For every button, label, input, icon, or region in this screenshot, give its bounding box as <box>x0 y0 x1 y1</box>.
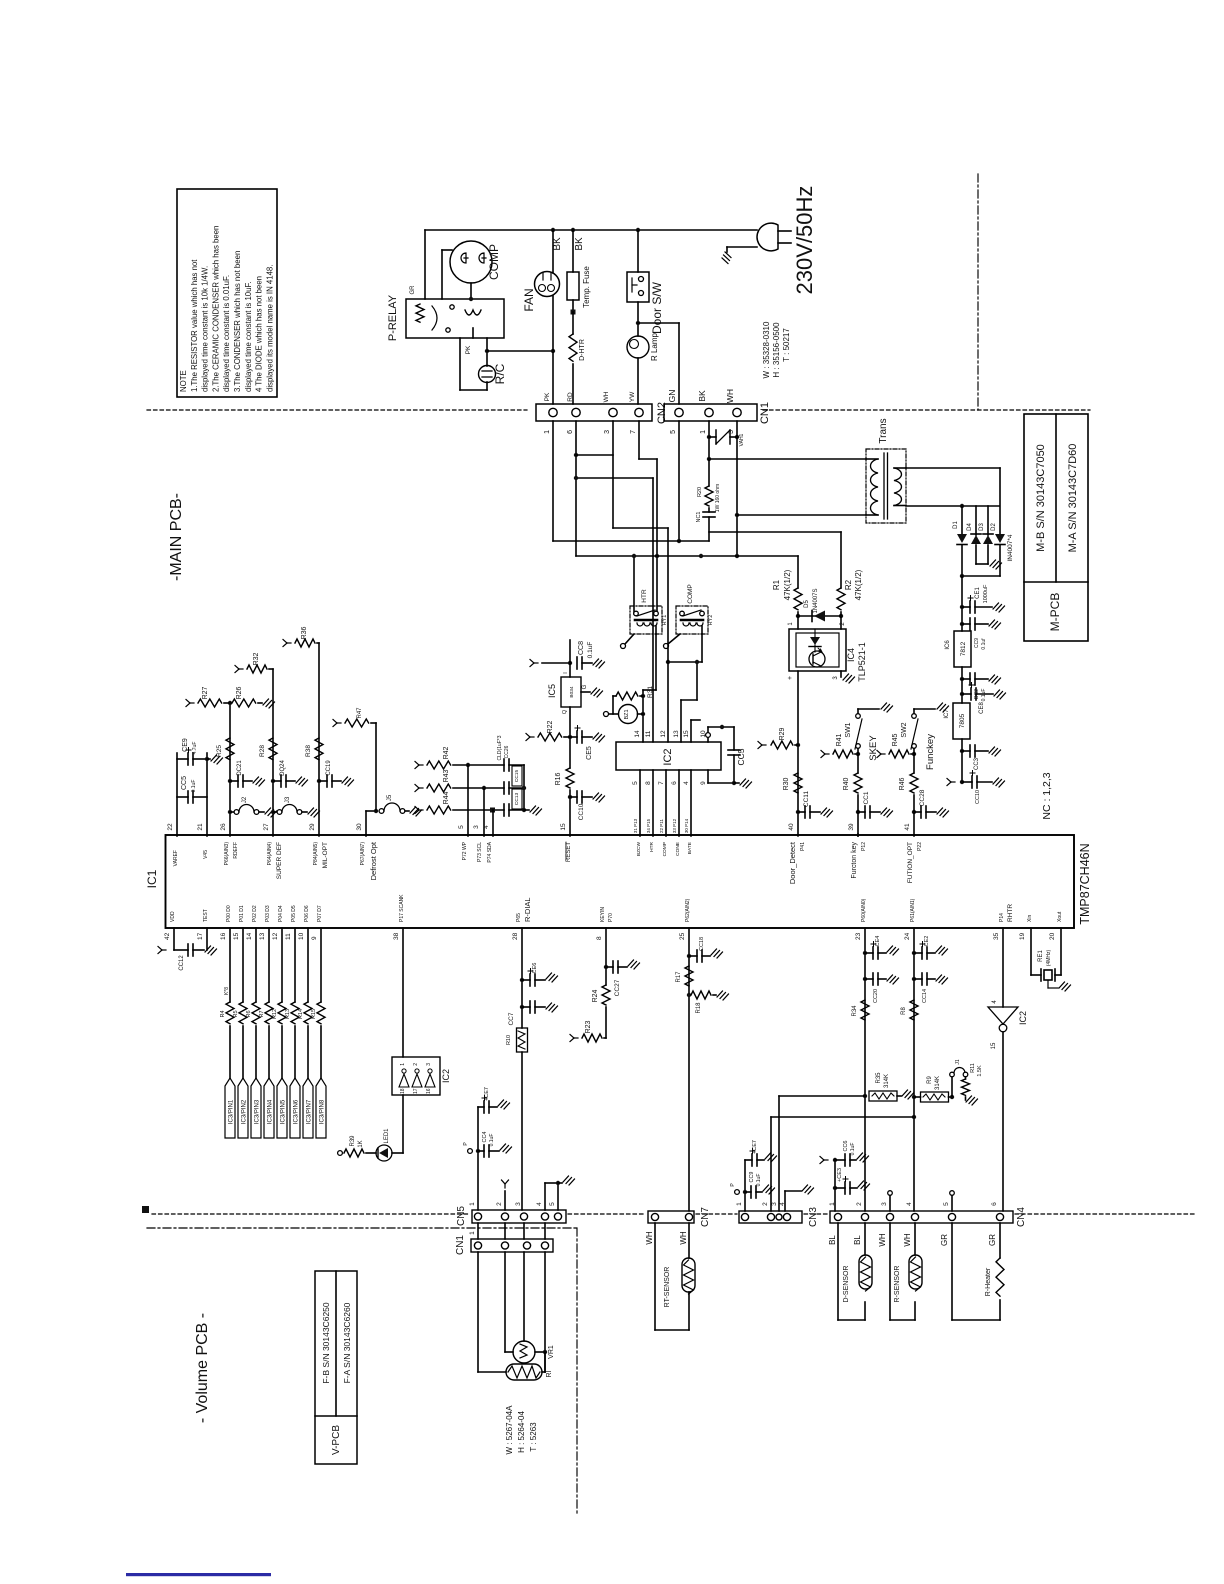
svg-text:1: 1 <box>788 622 794 626</box>
svg-text:P12: P12 <box>861 842 867 851</box>
svg-text:P70: P70 <box>608 913 614 922</box>
svg-text:RE1: RE1 <box>1038 950 1044 962</box>
svg-text:26: 26 <box>220 823 227 831</box>
svg-text:IC4: IC4 <box>846 648 856 662</box>
svg-text:14: 14 <box>246 932 253 940</box>
wire D1-D2 join <box>962 575 1000 577</box>
svg-text:P05 D5: P05 D5 <box>291 905 297 922</box>
svg-text:30 P14: 30 P14 <box>684 818 689 833</box>
svg-text:CE8: CE8 <box>979 702 985 714</box>
svg-text:18: 18 <box>400 1088 406 1094</box>
capacitor CE8 <box>960 692 964 696</box>
resistor RI volume <box>506 1364 542 1380</box>
resistor R29 <box>758 742 766 749</box>
svg-text:Door S/W: Door S/W <box>650 281 664 334</box>
diode D4 <box>975 506 977 535</box>
svg-text:IC3/PIN1: IC3/PIN1 <box>229 1099 235 1124</box>
svg-text:R15: R15 <box>311 1009 317 1019</box>
svg-text:5: 5 <box>670 430 677 434</box>
svg-text:GR: GR <box>940 1234 949 1246</box>
svg-text:CC11: CC11 <box>803 791 810 808</box>
reset IC5 B034 column <box>530 660 538 667</box>
temp fuse <box>572 230 574 272</box>
connector CN4 <box>830 1211 1013 1223</box>
svg-text:GN: GN <box>667 390 677 403</box>
svg-text:CE1: CE1 <box>975 587 981 599</box>
svg-text:TMP87CH46N: TMP87CH46N <box>1078 843 1092 924</box>
CN5 pin2 Y terminal <box>504 1191 506 1210</box>
svg-text:RY1: RY1 <box>662 615 668 626</box>
svg-text:R47: R47 <box>357 707 363 719</box>
svg-text:HTR: HTR <box>641 589 648 603</box>
svg-text:BK: BK <box>552 237 563 251</box>
svg-text:3: 3 <box>833 676 839 680</box>
svg-text:VR1: VR1 <box>548 1345 555 1359</box>
svg-text:0.1uF: 0.1uF <box>850 1143 856 1156</box>
svg-text:7805: 7805 <box>959 713 966 728</box>
svg-text:WH: WH <box>725 389 735 403</box>
capacitor CC9a 0.1uF <box>960 622 964 626</box>
svg-text:IC3/PIN3: IC3/PIN3 <box>255 1099 261 1124</box>
svg-text:R24: R24 <box>592 989 599 1002</box>
IC2 bottom pins to IC1 <box>639 770 641 836</box>
svg-text:IC1: IC1 <box>145 869 159 888</box>
pin38 column to inverter <box>402 928 404 1057</box>
svg-text:M-A S/N 30143C7D60: M-A S/N 30143C7D60 <box>1067 444 1079 553</box>
svg-text:P00 D0: P00 D0 <box>226 905 232 922</box>
svg-text:R1: R1 <box>772 579 781 590</box>
svg-text:R5: R5 <box>233 1010 239 1017</box>
resistor R35 314K <box>779 1095 865 1097</box>
svg-text:CC15: CC15 <box>514 770 520 783</box>
svg-text:39: 39 <box>848 823 855 831</box>
resistor R22 CE5 <box>526 734 534 741</box>
svg-text:230V/50Hz: 230V/50Hz <box>792 186 817 295</box>
svg-text:displayed time constant is 10k: displayed time constant is 10k 1/4W. <box>201 266 210 392</box>
svg-text:R42: R42 <box>443 746 450 759</box>
wire NC1 to R2 <box>709 531 841 533</box>
svg-text:(4MHz): (4MHz) <box>1046 949 1052 966</box>
svg-text:W : 35328-0310: W : 35328-0310 <box>762 321 771 378</box>
svg-text:IC3/PIN7: IC3/PIN7 <box>307 1099 313 1124</box>
svg-text:R43: R43 <box>443 769 450 782</box>
svg-text:P04 D4: P04 D4 <box>278 905 284 922</box>
svg-text:P65: P65 <box>516 913 522 922</box>
svg-text:1N4007S: 1N4007S <box>813 588 819 613</box>
svg-text:RHTR: RHTR <box>1007 904 1014 922</box>
svg-text:IN4007*4: IN4007*4 <box>1007 534 1014 561</box>
svg-text:R40: R40 <box>843 777 850 790</box>
svg-text:Trans: Trans <box>878 418 889 443</box>
svg-text:16: 16 <box>426 1088 432 1094</box>
svg-text:CC18: CC18 <box>699 937 705 951</box>
wire to CN1 pin5 <box>638 322 679 324</box>
capacitor R/C <box>459 338 461 390</box>
wire RY2 coil to IC2 pin12 <box>701 626 703 634</box>
svg-text:RDEFF: RDEFF <box>233 842 239 859</box>
svg-text:Temp. Fuse: Temp. Fuse <box>582 266 591 308</box>
fan motor FAN <box>552 230 554 273</box>
svg-text:11: 11 <box>285 933 292 940</box>
svg-text:4: 4 <box>536 1202 543 1206</box>
R lamp <box>637 302 639 336</box>
svg-text:CC19: CC19 <box>326 760 332 776</box>
buzzer BZ1 and R31 <box>604 712 609 717</box>
svg-text:3: 3 <box>604 430 611 434</box>
connector CN7 <box>648 1211 694 1223</box>
svg-text:P84(AIN5): P84(AIN5) <box>313 842 319 866</box>
svg-text:COMP: COMP <box>687 584 694 604</box>
svg-text:B034: B034 <box>569 686 575 698</box>
optocoupler IC4 TLP521-1 <box>789 629 846 671</box>
svg-text:Door_Detect: Door_Detect <box>788 841 797 884</box>
svg-text:1000uF: 1000uF <box>983 584 989 603</box>
svg-text:IC3/PIN5: IC3/PIN5 <box>281 1099 287 1124</box>
CN5 pins 4-5 ground <box>544 1183 546 1210</box>
svg-text:CE6: CE6 <box>532 963 538 974</box>
svg-text:R39: R39 <box>350 1135 356 1147</box>
IC2 pin9 to ground <box>707 770 709 783</box>
svg-text:13: 13 <box>259 932 266 940</box>
note box <box>177 189 277 397</box>
wire RY1 coil to IC2 pin14 <box>655 626 657 634</box>
svg-text:RD: RD <box>567 392 574 402</box>
svg-text:FUTION_OPT: FUTION_OPT <box>907 842 914 883</box>
RY1 coil terminal <box>621 644 626 649</box>
svg-text:1K: 1K <box>358 1140 364 1147</box>
svg-text:7: 7 <box>658 781 665 785</box>
svg-text:Xin: Xin <box>1027 915 1033 922</box>
svg-text:1.5K: 1.5K <box>977 1065 983 1077</box>
wire D4-D3 ground <box>976 563 988 565</box>
svg-text:2: 2 <box>413 1063 419 1066</box>
svg-text:PK: PK <box>544 392 551 401</box>
connector CN1 <box>664 404 757 421</box>
potentiometer VR1 <box>477 1252 479 1372</box>
svg-text:CE2: CE2 <box>924 936 930 947</box>
resistor R9 314K <box>921 1092 949 1102</box>
svg-text:GR: GR <box>410 285 416 295</box>
pin26 network R25 R27 R26 DC21 J2 <box>229 703 231 836</box>
diode D2 <box>995 534 1005 543</box>
svg-text:6: 6 <box>671 781 678 785</box>
svg-text:R31: R31 <box>647 686 654 698</box>
svg-text:P74 SDA: P74 SDA <box>487 841 493 862</box>
P-RELAY K1 <box>406 299 504 338</box>
svg-text:11: 11 <box>645 730 652 737</box>
capacitor CE1 1000uF <box>960 605 964 609</box>
svg-text:0.1uF: 0.1uF <box>489 1134 495 1147</box>
svg-text:30: 30 <box>356 823 363 831</box>
svg-text:17: 17 <box>413 1088 419 1094</box>
defrost heater D-HTR <box>572 312 574 334</box>
svg-text:15: 15 <box>560 823 567 831</box>
wire hot bus y556 <box>576 555 798 557</box>
svg-text:CC14: CC14 <box>922 989 928 1003</box>
capacitor CC11 <box>798 811 805 813</box>
regulator IC7 7805 <box>953 703 970 739</box>
svg-text:P66(AIN3): P66(AIN3) <box>224 842 230 866</box>
svg-text:CC4: CC4 <box>482 1131 488 1142</box>
relay RY1 HTR <box>630 606 662 634</box>
svg-text:CN1: CN1 <box>455 1235 466 1255</box>
svg-text:PK: PK <box>465 345 472 354</box>
svg-text:CONE: CONE <box>675 842 681 856</box>
svg-text:P73 SCL: P73 SCL <box>477 842 483 862</box>
svg-text:2: 2 <box>496 1202 503 1206</box>
svg-text:R38: R38 <box>305 745 312 757</box>
svg-text:47K(1/2): 47K(1/2) <box>854 569 863 600</box>
svg-text:23: 23 <box>855 932 862 940</box>
svg-text:19: 19 <box>1019 932 1026 940</box>
svg-text:5: 5 <box>943 1202 950 1206</box>
svg-text:4 The DIODE which has not been: 4 The DIODE which has not been <box>255 276 264 392</box>
svg-text:33 P12: 33 P12 <box>672 818 677 833</box>
svg-text:CN7: CN7 <box>700 1207 711 1227</box>
svg-text:1: 1 <box>400 1063 406 1066</box>
svg-text:Xout: Xout <box>1057 911 1063 922</box>
svg-text:42: 42 <box>164 932 171 940</box>
key SW1 SKEY with R41 R40 <box>821 751 829 758</box>
svg-text:RY2: RY2 <box>708 615 714 626</box>
svg-text:W : 5267-04A: W : 5267-04A <box>505 1405 514 1455</box>
svg-text:R27: R27 <box>202 686 209 699</box>
pin23 column AIN0 <box>864 928 866 1211</box>
svg-text:15: 15 <box>991 1042 997 1049</box>
svg-text:27: 27 <box>263 823 270 831</box>
pin25 column RT sensor line <box>688 928 690 1211</box>
svg-text:1: 1 <box>469 1202 476 1206</box>
resistor R10 boxed <box>517 1028 528 1052</box>
wire CN2 pin3 column <box>612 421 614 528</box>
svg-text:29: 29 <box>309 823 316 831</box>
svg-text:R4: R4 <box>220 1010 226 1017</box>
svg-text:25: 25 <box>679 932 686 940</box>
svg-text:28: 28 <box>512 932 519 940</box>
svg-text:R Lamp: R Lamp <box>650 332 659 361</box>
svg-text:+CE7: +CE7 <box>752 1140 758 1154</box>
svg-text:R22: R22 <box>547 720 554 733</box>
svg-text:6: 6 <box>567 430 574 434</box>
svg-text:R20: R20 <box>697 487 703 497</box>
heater R-Heater <box>951 1223 953 1320</box>
resistor R1 47K <box>797 556 799 588</box>
CN4 supply cluster CC6 CE3 <box>834 1160 836 1211</box>
svg-text:R23: R23 <box>585 1020 592 1033</box>
svg-text:P67(AIN7): P67(AIN7) <box>360 842 366 866</box>
svg-text:F-A S/N 30143C6260: F-A S/N 30143C6260 <box>342 1302 352 1383</box>
svg-text:22: 22 <box>167 823 174 831</box>
svg-text:CE9: CE9 <box>182 738 189 752</box>
svg-text:9: 9 <box>311 936 318 940</box>
svg-text:P41: P41 <box>800 842 806 851</box>
svg-text:R30: R30 <box>783 777 790 790</box>
svg-text:R-Heater: R-Heater <box>985 1267 992 1296</box>
svg-text:40: 40 <box>788 823 795 831</box>
svg-text:DQ24: DQ24 <box>280 760 286 776</box>
pin24 column AIN1 <box>913 928 915 1211</box>
svg-text:P14: P14 <box>999 913 1005 922</box>
svg-text:P-RELAY: P-RELAY <box>387 294 399 341</box>
svg-text:CC9: CC9 <box>749 1171 755 1182</box>
thermistor RT-SENSOR <box>654 1223 656 1330</box>
svg-text:WH: WH <box>903 1233 912 1247</box>
svg-text:5: 5 <box>458 825 465 829</box>
svg-text:15: 15 <box>233 932 240 940</box>
svg-text:1: 1 <box>829 1202 836 1206</box>
svg-text:P06 D6: P06 D6 <box>304 905 310 922</box>
svg-text:20: 20 <box>1049 932 1056 940</box>
wires CN5-CN1 <box>477 1223 479 1239</box>
svg-text:12: 12 <box>272 932 279 940</box>
svg-text:R25: R25 <box>216 745 223 757</box>
svg-text:3: 3 <box>426 1063 432 1066</box>
svg-text:CC12: CC12 <box>179 955 185 971</box>
svg-text:J1: J1 <box>955 1059 961 1065</box>
svg-text:P62(AIN2): P62(AIN2) <box>685 898 691 922</box>
svg-text:CC9: CC9 <box>974 638 980 648</box>
wire comp-relay <box>442 249 452 251</box>
V-PCB title box <box>315 1271 357 1464</box>
svg-text:BK: BK <box>574 237 585 251</box>
svg-text:6: 6 <box>991 1202 998 1206</box>
svg-text:1.The RESISTOR value which has: 1.The RESISTOR value which has not <box>190 259 199 392</box>
svg-text:CN4: CN4 <box>1016 1207 1027 1227</box>
connector CN2 <box>536 404 652 421</box>
thermistor R-SENSOR <box>889 1223 891 1320</box>
svg-text:CC7: CC7 <box>508 1012 515 1025</box>
pin29 network R38 R36 CC19 <box>318 643 320 836</box>
resistor R30 <box>794 773 802 793</box>
svg-text:P61(AIN1): P61(AIN1) <box>910 898 916 922</box>
svg-text:KEYIN: KEYIN <box>600 907 606 922</box>
inverter array IC2b <box>392 1057 440 1095</box>
svg-text:0.1uf: 0.1uf <box>981 638 987 650</box>
svg-text:0.1uF: 0.1uF <box>981 689 987 702</box>
svg-text:G: G <box>582 684 588 689</box>
svg-text:8: 8 <box>645 781 652 785</box>
svg-text:R16: R16 <box>555 772 562 785</box>
svg-text:RT-SENSOR: RT-SENSOR <box>664 1267 671 1308</box>
svg-text:VAH1: VAH1 <box>739 433 745 446</box>
svg-text:47K(1/2): 47K(1/2) <box>783 569 792 600</box>
relay RY2 COMP <box>676 606 708 634</box>
svg-text:IC3/PIN2: IC3/PIN2 <box>242 1099 248 1124</box>
svg-text:14: 14 <box>634 730 641 738</box>
svg-text:P17 SCANK: P17 SCANK <box>399 894 405 922</box>
svg-text:IC2: IC2 <box>662 748 674 765</box>
svg-text:CC3: CC3 <box>974 757 980 770</box>
svg-text:3: 3 <box>473 825 480 829</box>
svg-text:WH: WH <box>679 1231 688 1245</box>
svg-text:1: 1 <box>544 430 551 434</box>
svg-text:31 P13: 31 P13 <box>633 818 638 833</box>
svg-text:P03 D3: P03 D3 <box>265 905 271 922</box>
svg-text:BK: BK <box>697 390 707 402</box>
svg-text:TLP521-1: TLP521-1 <box>857 642 867 682</box>
svg-text:7: 7 <box>630 430 637 434</box>
pin27 network R28 R32 DQ24 J3 <box>272 669 274 836</box>
diode D5 IN4007S <box>797 612 799 629</box>
mains plug 230V/50Hz <box>757 223 778 251</box>
svg-text:D4: D4 <box>967 523 973 531</box>
svg-text:24: 24 <box>904 932 911 940</box>
svg-text:displayed its model name is IN: displayed its model name is IN 4148. <box>265 265 274 392</box>
svg-text:LED1: LED1 <box>384 1128 390 1144</box>
svg-text:CC13: CC13 <box>514 793 520 806</box>
LED1 and R39 <box>402 1095 404 1153</box>
pin30 network R47 J5 <box>365 811 367 836</box>
svg-text:WH: WH <box>878 1233 887 1247</box>
section divider dash-dot vertical <box>977 174 979 410</box>
svg-text:CC20: CC20 <box>873 989 879 1003</box>
resistor R16 CC10 <box>566 768 574 788</box>
svg-text:YW: YW <box>629 391 636 402</box>
svg-text:CC8: CC8 <box>578 641 585 655</box>
svg-text:J5: J5 <box>387 794 393 801</box>
svg-text:R14: R14 <box>298 1009 304 1019</box>
svg-text:GR: GR <box>988 1234 997 1246</box>
svg-text:R7: R7 <box>259 1010 265 1017</box>
svg-text:HTR: HTR <box>649 841 655 851</box>
wire IC2 pin13 jog <box>680 700 682 742</box>
svg-text:NC1: NC1 <box>696 511 702 522</box>
svg-text:1: 1 <box>469 1231 476 1235</box>
svg-text:M-B S/N 30143C7050: M-B S/N 30143C7050 <box>1035 444 1047 552</box>
svg-text:T : 5263: T : 5263 <box>529 1422 538 1452</box>
svg-text:CC6: CC6 <box>843 1140 849 1151</box>
pins 22 21 with CE9 CC5 <box>176 753 178 836</box>
svg-text:CE4: CE4 <box>875 936 881 947</box>
svg-text:WH: WH <box>645 1231 654 1245</box>
svg-text:BL: BL <box>853 1235 862 1245</box>
section divider dashed top <box>147 409 527 411</box>
svg-text:Funckey: Funckey <box>925 734 936 770</box>
svg-text:12: 12 <box>660 730 667 738</box>
thermistor D-SENSOR <box>837 1223 839 1320</box>
svg-text:FAN: FAN <box>522 288 536 311</box>
svg-text:D5: D5 <box>804 600 810 608</box>
svg-text:R34: R34 <box>852 1005 858 1017</box>
svg-text:J3: J3 <box>285 796 291 803</box>
svg-text:D-HTR: D-HTR <box>579 339 586 361</box>
svg-text:CE5: CE5 <box>586 746 593 760</box>
svg-text:CC5: CC5 <box>181 776 188 790</box>
svg-text:R36: R36 <box>301 626 308 639</box>
earth ground <box>727 246 757 248</box>
flags IC3/PIN1-PIN8 <box>225 1078 235 1138</box>
svg-text:displayed time constant is 10u: displayed time constant is 10uF. <box>244 281 253 392</box>
svg-text:8: 8 <box>596 936 603 940</box>
svg-text:10: 10 <box>298 932 305 940</box>
svg-text:P07 D7: P07 D7 <box>317 905 323 922</box>
svg-text:RI: RI <box>546 1370 553 1377</box>
svg-text:H : 5264-04: H : 5264-04 <box>517 1411 526 1453</box>
svg-text:R10: R10 <box>506 1035 512 1045</box>
svg-text:J2: J2 <box>242 796 248 803</box>
capacitor NC1 <box>703 511 715 513</box>
wire CN2 pin1 column <box>552 421 554 541</box>
svg-text:4: 4 <box>992 1000 998 1004</box>
wire CN1 pin5 GN column <box>678 421 680 541</box>
svg-text:2: 2 <box>762 1202 769 1206</box>
svg-text:9: 9 <box>700 781 707 785</box>
connector CN1 volume <box>471 1239 553 1252</box>
svg-text:16: 16 <box>220 932 227 940</box>
wire - mains top bus <box>425 229 757 231</box>
svg-text:COMP: COMP <box>487 244 501 280</box>
diode D1 <box>961 506 963 534</box>
